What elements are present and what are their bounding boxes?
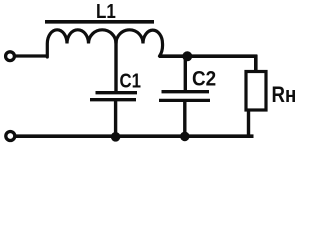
- node: junction dot top (C2 tap): [182, 51, 192, 61]
- input terminal top: [6, 52, 15, 61]
- wire: C2 down to bottom bus: [183, 100, 186, 137]
- capacitor C1 bottom plate: [90, 98, 136, 101]
- capacitor C2 top plate: [162, 90, 210, 93]
- svg-text:Rн: Rн: [272, 83, 297, 107]
- wire: resistor bottom lead: [247, 110, 250, 136]
- wire: coil output to top-right corner: [159, 54, 257, 58]
- input terminal bottom: [6, 132, 15, 141]
- wire: top junction down to C2: [184, 56, 187, 92]
- resistor Rн body: [246, 72, 266, 111]
- svg-text:C2: C2: [192, 68, 216, 91]
- capacitor C1 top plate: [96, 91, 138, 94]
- wire: corner down to resistor top: [254, 55, 258, 71]
- wire: bottom bus: [15, 134, 254, 138]
- inductor L1 core bar: [45, 20, 154, 24]
- capacitor C2 bottom plate: [159, 99, 210, 102]
- inductor L1 winding: [47, 30, 162, 57]
- node: junction dot C2 / bottom bus: [180, 132, 190, 142]
- svg-text:C1: C1: [120, 69, 141, 92]
- node: junction dot C1 / bottom bus: [111, 132, 121, 142]
- svg-text:L1: L1: [96, 0, 116, 22]
- wire: top terminal to coil: [15, 54, 49, 57]
- wire: coil tap down to C1: [114, 41, 117, 92]
- wire: C1 down to bottom bus: [114, 100, 117, 137]
